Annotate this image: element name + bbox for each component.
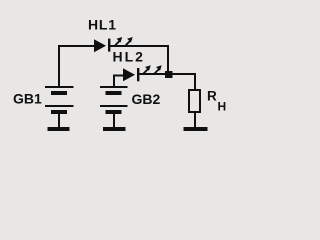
- ground under resistor RH: [184, 127, 208, 131]
- battery GB2 cell 2 long plate: [100, 105, 128, 107]
- battery GB2 cell 1 long plate: [100, 86, 128, 88]
- LED HL2 emission arrow 1: [143, 65, 151, 74]
- svg-text:H: H: [218, 100, 227, 114]
- background paper: [0, 0, 250, 140]
- node A (junction dot): [165, 71, 173, 78]
- battery GB1 cell 2 long plate: [45, 105, 74, 107]
- LED HL1 cathode bar: [108, 39, 110, 52]
- LED HL2 emission arrow 2: [154, 65, 162, 74]
- ground under GB2: [103, 127, 126, 131]
- wire GB2 negative to ground: [113, 114, 115, 128]
- battery GB2 cell 2 short plate: [106, 110, 122, 114]
- LED HL1 emission arrow 1: [115, 37, 123, 46]
- LED HL2 triangle (anode): [123, 68, 135, 81]
- wire from GB1 positive up and right to HL1 anode: [59, 46, 95, 87]
- svg-text:GB2: GB2: [132, 91, 161, 107]
- wire from GB2 positive up and right to HL2 anode: [114, 76, 124, 88]
- resistor RH body: [189, 90, 200, 112]
- battery GB2 cell 1 short plate: [106, 91, 122, 95]
- svg-text:HL2: HL2: [113, 49, 145, 65]
- wire from HL1 cathode right and down to node A: [110, 46, 169, 72]
- LED HL2 cathode bar: [137, 68, 139, 81]
- battery GB1 cell 2 short plate: [51, 110, 67, 114]
- battery GB1 cell 1 short plate: [51, 91, 67, 95]
- ground under GB1: [48, 127, 70, 131]
- LED HL1 emission arrow 2: [125, 37, 133, 46]
- svg-text:R: R: [207, 89, 217, 104]
- wire from HL2 cathode to node A: [139, 73, 167, 75]
- svg-text:GB1: GB1: [13, 91, 42, 107]
- LED HL1 triangle (anode): [94, 39, 106, 52]
- wire GB1 negative to ground: [58, 114, 60, 128]
- svg-text:HL1: HL1: [88, 17, 117, 33]
- wire resistor to ground: [194, 112, 196, 128]
- wire from node A right and down to resistor RH: [172, 74, 195, 90]
- battery GB1 cell 1 long plate: [45, 86, 74, 88]
